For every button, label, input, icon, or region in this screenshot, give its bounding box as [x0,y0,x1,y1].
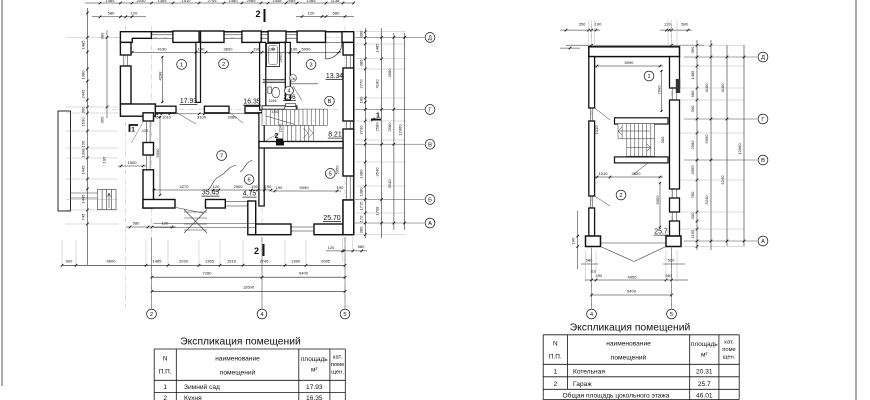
svg-text:2730: 2730 [358,125,363,135]
svg-text:Экспликация помещений: Экспликация помещений [180,336,301,347]
svg-text:В: В [328,99,332,105]
svg-text:190: 190 [265,184,272,189]
svg-text:2770: 2770 [358,79,363,89]
svg-text:190: 190 [276,185,283,190]
svg-text:N: N [163,356,168,363]
svg-text:745: 745 [80,213,85,220]
svg-text:5240: 5240 [720,175,725,185]
svg-text:580: 580 [133,221,140,226]
svg-text:1485: 1485 [106,0,116,3]
svg-text:3100: 3100 [197,114,207,119]
svg-text:170: 170 [358,215,363,222]
svg-text:4.75: 4.75 [243,191,257,198]
svg-text:5400: 5400 [627,288,637,293]
svg-text:1380: 1380 [80,70,85,80]
svg-text:щен.: щен. [331,370,344,376]
svg-text:1365: 1365 [205,258,215,263]
svg-text:35.45: 35.45 [202,190,219,197]
svg-text:7990: 7990 [657,85,662,95]
svg-text:25.7: 25.7 [698,381,711,388]
svg-text:П.П.: П.П. [159,369,172,376]
svg-text:5990: 5990 [704,134,709,144]
svg-text:1: 1 [376,111,380,120]
svg-text:1448: 1448 [273,0,283,3]
svg-text:поме: поме [722,347,736,353]
svg-text:12600: 12600 [243,285,255,290]
svg-text:2: 2 [163,395,167,400]
svg-text:350: 350 [579,22,586,27]
svg-text:17.93: 17.93 [180,98,197,105]
svg-text:2080: 2080 [228,114,238,119]
svg-text:м²: м² [701,352,708,359]
svg-text:120: 120 [328,245,335,250]
svg-text:190: 190 [269,48,275,52]
svg-text:2030: 2030 [179,258,189,263]
svg-text:А: А [428,221,432,227]
svg-text:190: 190 [253,46,260,51]
svg-text:Б: Б [428,197,432,203]
svg-text:1: 1 [553,368,557,375]
svg-text:2445: 2445 [80,89,85,99]
svg-text:Котельная: Котельная [573,368,605,375]
svg-text:5: 5 [343,312,346,318]
svg-text:580: 580 [333,11,340,16]
svg-text:2500: 2500 [234,184,244,189]
svg-text:580: 580 [108,11,115,16]
svg-text:1380: 1380 [291,258,301,263]
svg-text:900: 900 [66,258,73,263]
svg-text:190: 190 [571,237,576,244]
svg-text:4288: 4288 [158,71,163,81]
svg-text:2: 2 [150,312,153,318]
svg-text:1485: 1485 [375,43,380,53]
svg-text:1485: 1485 [690,70,695,80]
svg-text:4180: 4180 [720,83,725,93]
svg-text:5050: 5050 [655,195,660,205]
svg-text:13.34: 13.34 [326,73,343,80]
svg-text:380: 380 [358,30,363,37]
svg-text:5400: 5400 [299,271,309,276]
svg-text:2745: 2745 [208,0,218,3]
svg-text:кат.: кат. [724,340,734,346]
svg-text:4950: 4950 [628,274,638,279]
svg-text:1195: 1195 [690,229,695,238]
svg-text:1485: 1485 [153,258,163,263]
svg-text:Гараж: Гараж [573,381,592,388]
svg-text:1010: 1010 [599,171,609,176]
svg-text:360: 360 [690,46,695,53]
svg-text:20.31: 20.31 [696,368,713,375]
svg-text:5990: 5990 [155,148,160,158]
svg-text:Общая площадь цокольного этажа: Общая площадь цокольного этажа [563,392,670,400]
svg-text:2: 2 [222,62,225,68]
svg-text:980: 980 [690,90,695,97]
svg-text:1380: 1380 [358,187,363,197]
svg-text:8.21: 8.21 [328,132,342,139]
svg-text:щен.: щен. [723,355,736,361]
svg-text:7280: 7280 [203,271,213,276]
svg-text:1,50: 1,50 [271,109,280,114]
svg-text:120: 120 [213,184,220,189]
svg-text:120: 120 [308,11,315,16]
svg-text:195: 195 [102,156,107,163]
svg-text:1445: 1445 [80,165,85,175]
svg-text:2085: 2085 [287,0,297,3]
svg-text:2745: 2745 [260,258,270,263]
svg-text:2085: 2085 [247,0,257,3]
svg-text:25.70: 25.70 [323,215,340,222]
svg-text:1: 1 [131,127,135,134]
svg-text:1708: 1708 [375,206,380,216]
svg-text:780: 780 [690,191,695,198]
svg-text:2580: 2580 [387,122,392,132]
svg-text:7: 7 [220,154,223,160]
svg-text:2580: 2580 [690,140,695,150]
svg-text:190: 190 [337,185,344,190]
svg-text:300: 300 [690,105,695,112]
svg-text:3820: 3820 [632,171,642,176]
svg-text:5240: 5240 [704,195,709,205]
svg-text:190: 190 [251,184,258,189]
svg-text:2: 2 [255,9,260,19]
svg-text:1010: 1010 [162,114,172,119]
svg-text:4580: 4580 [387,68,392,78]
svg-text:640: 640 [665,274,671,278]
svg-text:190: 190 [596,274,602,278]
svg-text:3820: 3820 [224,46,234,51]
svg-text:5: 5 [329,171,332,177]
svg-text:195: 195 [80,140,85,147]
svg-text:4180: 4180 [704,83,709,93]
svg-text:380: 380 [358,226,363,233]
svg-text:300: 300 [660,136,665,143]
svg-text:190: 190 [291,46,298,51]
svg-text:Зимний сад: Зимний сад [184,383,220,391]
svg-text:25.7: 25.7 [654,229,668,236]
svg-text:1365: 1365 [307,0,317,3]
svg-text:В: В [761,158,765,164]
svg-text:580: 580 [681,22,688,27]
svg-text:2: 2 [619,193,622,199]
svg-text:1510: 1510 [227,258,237,263]
svg-text:12060: 12060 [398,124,403,136]
svg-text:1916: 1916 [269,99,277,103]
svg-text:3050: 3050 [690,165,695,175]
svg-text:площадь: площадь [301,356,328,363]
svg-text:2030: 2030 [137,0,147,3]
svg-text:5050: 5050 [335,165,340,175]
svg-text:2650: 2650 [278,53,283,63]
svg-text:N: N [553,341,558,348]
svg-text:16.35: 16.35 [243,99,260,106]
svg-text:Кухня: Кухня [184,395,202,400]
svg-text:Д: Д [761,55,765,61]
svg-text:17.93: 17.93 [306,384,323,391]
svg-text:1380: 1380 [358,169,363,179]
svg-text:1138: 1138 [331,0,340,3]
svg-text:1: 1 [647,74,650,80]
svg-text:2: 2 [553,381,557,388]
svg-text:Экспликация помещений: Экспликация помещений [570,322,691,333]
svg-text:наименование: наименование [606,341,651,348]
svg-text:1398: 1398 [80,148,85,158]
svg-text:1530: 1530 [80,117,85,127]
svg-text:кат.: кат. [333,355,343,361]
svg-text:190: 190 [198,46,205,51]
svg-text:380: 380 [358,59,363,66]
svg-text:3: 3 [309,62,312,68]
svg-text:1445: 1445 [80,194,85,204]
svg-text:СМ: СМ [291,77,296,81]
svg-text:В: В [428,142,432,148]
svg-text:4270: 4270 [180,184,190,189]
svg-text:580: 580 [586,258,593,263]
svg-text:1365: 1365 [158,0,168,3]
svg-text:П.П.: П.П. [549,354,562,361]
svg-text:2580: 2580 [375,122,380,132]
svg-text:5090: 5090 [300,185,310,190]
svg-text:м²: м² [311,367,318,374]
svg-text:2.46: 2.46 [283,94,296,101]
svg-text:120: 120 [162,221,169,226]
svg-text:180: 180 [358,96,363,103]
svg-text:4190: 4190 [158,46,168,51]
svg-text:6: 6 [248,178,251,184]
svg-text:5090: 5090 [302,46,312,51]
svg-text:120: 120 [131,11,138,16]
svg-text:190: 190 [595,22,602,27]
svg-text:120: 120 [142,129,148,133]
svg-text:А: А [761,239,765,245]
svg-text:110: 110 [590,270,596,274]
svg-text:16.35: 16.35 [306,395,323,400]
svg-text:1380: 1380 [229,0,239,3]
svg-text:46.01: 46.01 [696,393,713,400]
svg-text:2: 2 [254,246,259,256]
svg-text:4600: 4600 [107,258,117,263]
svg-text:1: 1 [163,384,167,391]
svg-text:1510: 1510 [182,0,192,3]
svg-text:300: 300 [690,212,695,219]
svg-text:3540: 3540 [375,167,380,177]
svg-text:помещений: помещений [220,369,256,377]
svg-text:5: 5 [670,312,673,318]
svg-text:580: 580 [358,244,365,249]
svg-text:поме: поме [331,362,345,368]
svg-text:2085: 2085 [321,258,331,263]
svg-text:помещений: помещений [611,354,647,362]
svg-text:12060: 12060 [737,143,742,155]
svg-text:площадь: площадь [691,341,718,348]
svg-text:наименование: наименование [215,356,260,363]
svg-text:Д: Д [428,35,432,41]
svg-text:2240: 2240 [279,124,283,132]
svg-text:1715: 1715 [358,201,363,211]
svg-text:360: 360 [100,116,105,123]
svg-text:380: 380 [100,32,105,39]
svg-text:2: 2 [275,133,279,140]
svg-text:4180: 4180 [375,79,380,89]
svg-text:3540: 3540 [387,179,392,189]
svg-text:1010: 1010 [594,125,599,135]
svg-text:1: 1 [180,62,183,68]
svg-text:5090: 5090 [625,60,635,65]
svg-text:1485: 1485 [80,40,85,50]
svg-text:1500: 1500 [128,160,138,165]
